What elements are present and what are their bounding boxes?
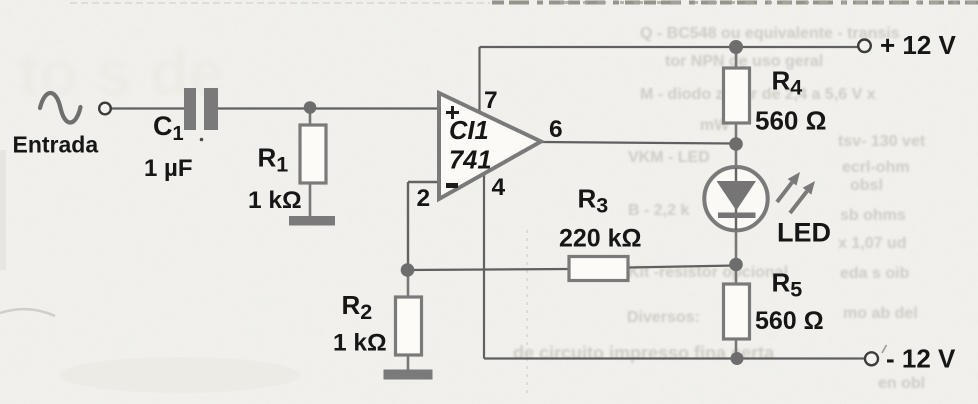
wire R1 bottom to ground [309,183,312,218]
node junction -12V rail / R5 [731,352,744,365]
svg-text:ecrl-ohm: ecrl-ohm [842,159,910,176]
svg-text:741: 741 [449,147,492,175]
op-amp minus input marking [446,183,458,188]
wire C1 to op-amp non-inverting input [212,107,439,109]
LED D1 [704,167,767,230]
resistor R1 [300,125,326,183]
svg-text:1 µF: 1 µF [144,155,193,182]
svg-text:en obl: en obl [878,375,925,392]
svg-text:1 kΩ: 1 kΩ [248,187,302,214]
wire node to R2 top [407,270,410,297]
node junction output/R4/LED [729,137,743,151]
op-amp plus input marking [446,106,459,119]
node junction LED cathode / R3 / R5 [729,258,743,272]
wire feedback node to R3 left [407,269,569,270]
wire R1 top [309,109,312,126]
svg-text:6: 6 [549,116,563,143]
LED light arrow 2 [790,191,807,213]
wire R4 top [735,47,738,68]
resistor R4 [724,68,750,123]
wire pin 2 stub to inverting input [408,181,439,183]
svg-text:VKM - LED: VKM - LED [628,149,710,166]
wire R5 bottom to -12V rail [735,339,738,359]
svg-text:560 Ω: 560 Ω [755,106,826,136]
wire pin 2 vertical [407,182,409,270]
wire pin 7 to +12V rail [478,47,480,111]
svg-text:Diversos:: Diversos: [627,309,700,326]
svg-text:4: 4 [492,174,506,201]
svg-text:2: 2 [417,185,431,212]
svg-text:LED: LED [777,218,831,248]
ground symbol below R2 [384,370,433,380]
svg-text:tsv- 130 vet: tsv- 130 vet [838,133,926,150]
wire input terminal to C1 [111,107,190,109]
svg-text:560 Ω: 560 Ω [755,307,824,335]
resistor R5 [724,284,750,339]
svg-text:x 1,07 ud: x 1,07 ud [838,235,906,252]
svg-text:eda s oib: eda s oib [840,265,910,282]
svg-text:sb ohms: sb ohms [840,207,906,224]
op-amp U1 CI1 741 [439,93,541,199]
svg-text:+ 12 V: + 12 V [880,30,957,60]
capacitor C1 [184,88,196,130]
wire +12V rail [480,46,859,48]
-12V terminal [865,352,878,365]
svg-text:1 kΩ: 1 kΩ [333,330,387,357]
svg-text:CI1: CI1 [449,117,489,145]
svg-text:220 kΩ: 220 kΩ [559,225,642,253]
wire op-amp output pin 6 to LED node [541,142,736,144]
svg-text:obsl: obsl [850,177,883,194]
svg-text:M - diodo zener de 2,4 a 5,6 V: M - diodo zener de 2,4 a 5,6 V x [640,86,876,103]
svg-text:7: 7 [484,87,498,114]
signal source sine symbol [40,93,81,123]
svg-text:Entrada: Entrada [13,132,99,158]
wire R4 bottom to LED anode node [735,123,738,166]
node junction +12V rail / R4 [729,40,743,54]
wire R3 right to LED-R5 node [628,266,736,268]
+12V terminal [858,40,871,53]
wire pin 4 to -12V rail [483,175,485,359]
node junction at R1 top [304,101,317,114]
input terminal [99,103,111,115]
resistor R2 [396,297,422,355]
svg-text:B - 2,2 k: B - 2,2 k [628,202,689,219]
ground symbol below R1 [289,216,335,226]
svg-text:mo ab del: mo ab del [843,305,918,322]
wire LED cathode to R5 node [735,230,738,284]
LED light arrow 1 [777,182,792,202]
resistor R3 [569,257,628,281]
node junction pin2/R2/R3 [401,263,415,277]
wire R2 bottom to ground [407,355,410,371]
svg-text:- 12 V: - 12 V [886,344,956,374]
wire -12V rail [484,357,865,359]
